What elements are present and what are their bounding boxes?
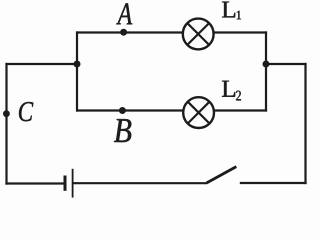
wire: top branch left segment (junction column to L1) (76, 31, 198, 33)
wire: top branch right segment (L1 to top-right corner) (198, 31, 267, 33)
wire: right upper vertical (top corner down to right junction) (265, 31, 267, 65)
switch S (open blade) (207, 167, 237, 183)
label C (19, 102, 33, 121)
wire: left vertical through point C (5, 63, 7, 185)
wire: B branch horizontal (junction column to L2 and onward) (76, 109, 267, 111)
wire: right mid vertical (B branch corner up to right junction) (265, 63, 267, 112)
node B (dot on lower branch) (119, 107, 126, 114)
node A (dot on top branch) (120, 29, 127, 36)
wire: right outer vertical (304, 63, 306, 184)
node C (dot on left wire) (3, 110, 10, 117)
lamp L1 symbol (circle with X) (183, 19, 214, 50)
junction at left parallel split (74, 61, 81, 68)
wire: right horizontal from junction to right edge (265, 63, 307, 65)
wire: bottom left segment (left corner to battery) (5, 182, 64, 184)
label L2 (222, 81, 241, 101)
label L1 (222, 2, 241, 20)
junction at right parallel merge (263, 61, 270, 68)
wire: bottom right segment (right corner to switch) (240, 182, 307, 184)
wire: bottom middle segment (battery to switch pivot) (73, 182, 207, 184)
lamp L2 symbol (circle with X) (183, 97, 214, 128)
label A (116, 3, 132, 24)
battery: short (negative) plate (64, 176, 67, 191)
label B (114, 119, 131, 142)
battery: long (positive) plate (72, 169, 74, 198)
wire: middle-left horizontal from C column to junction (5, 63, 78, 65)
wire: vertical at x=77 from top branch through junction to B branch (76, 31, 78, 111)
